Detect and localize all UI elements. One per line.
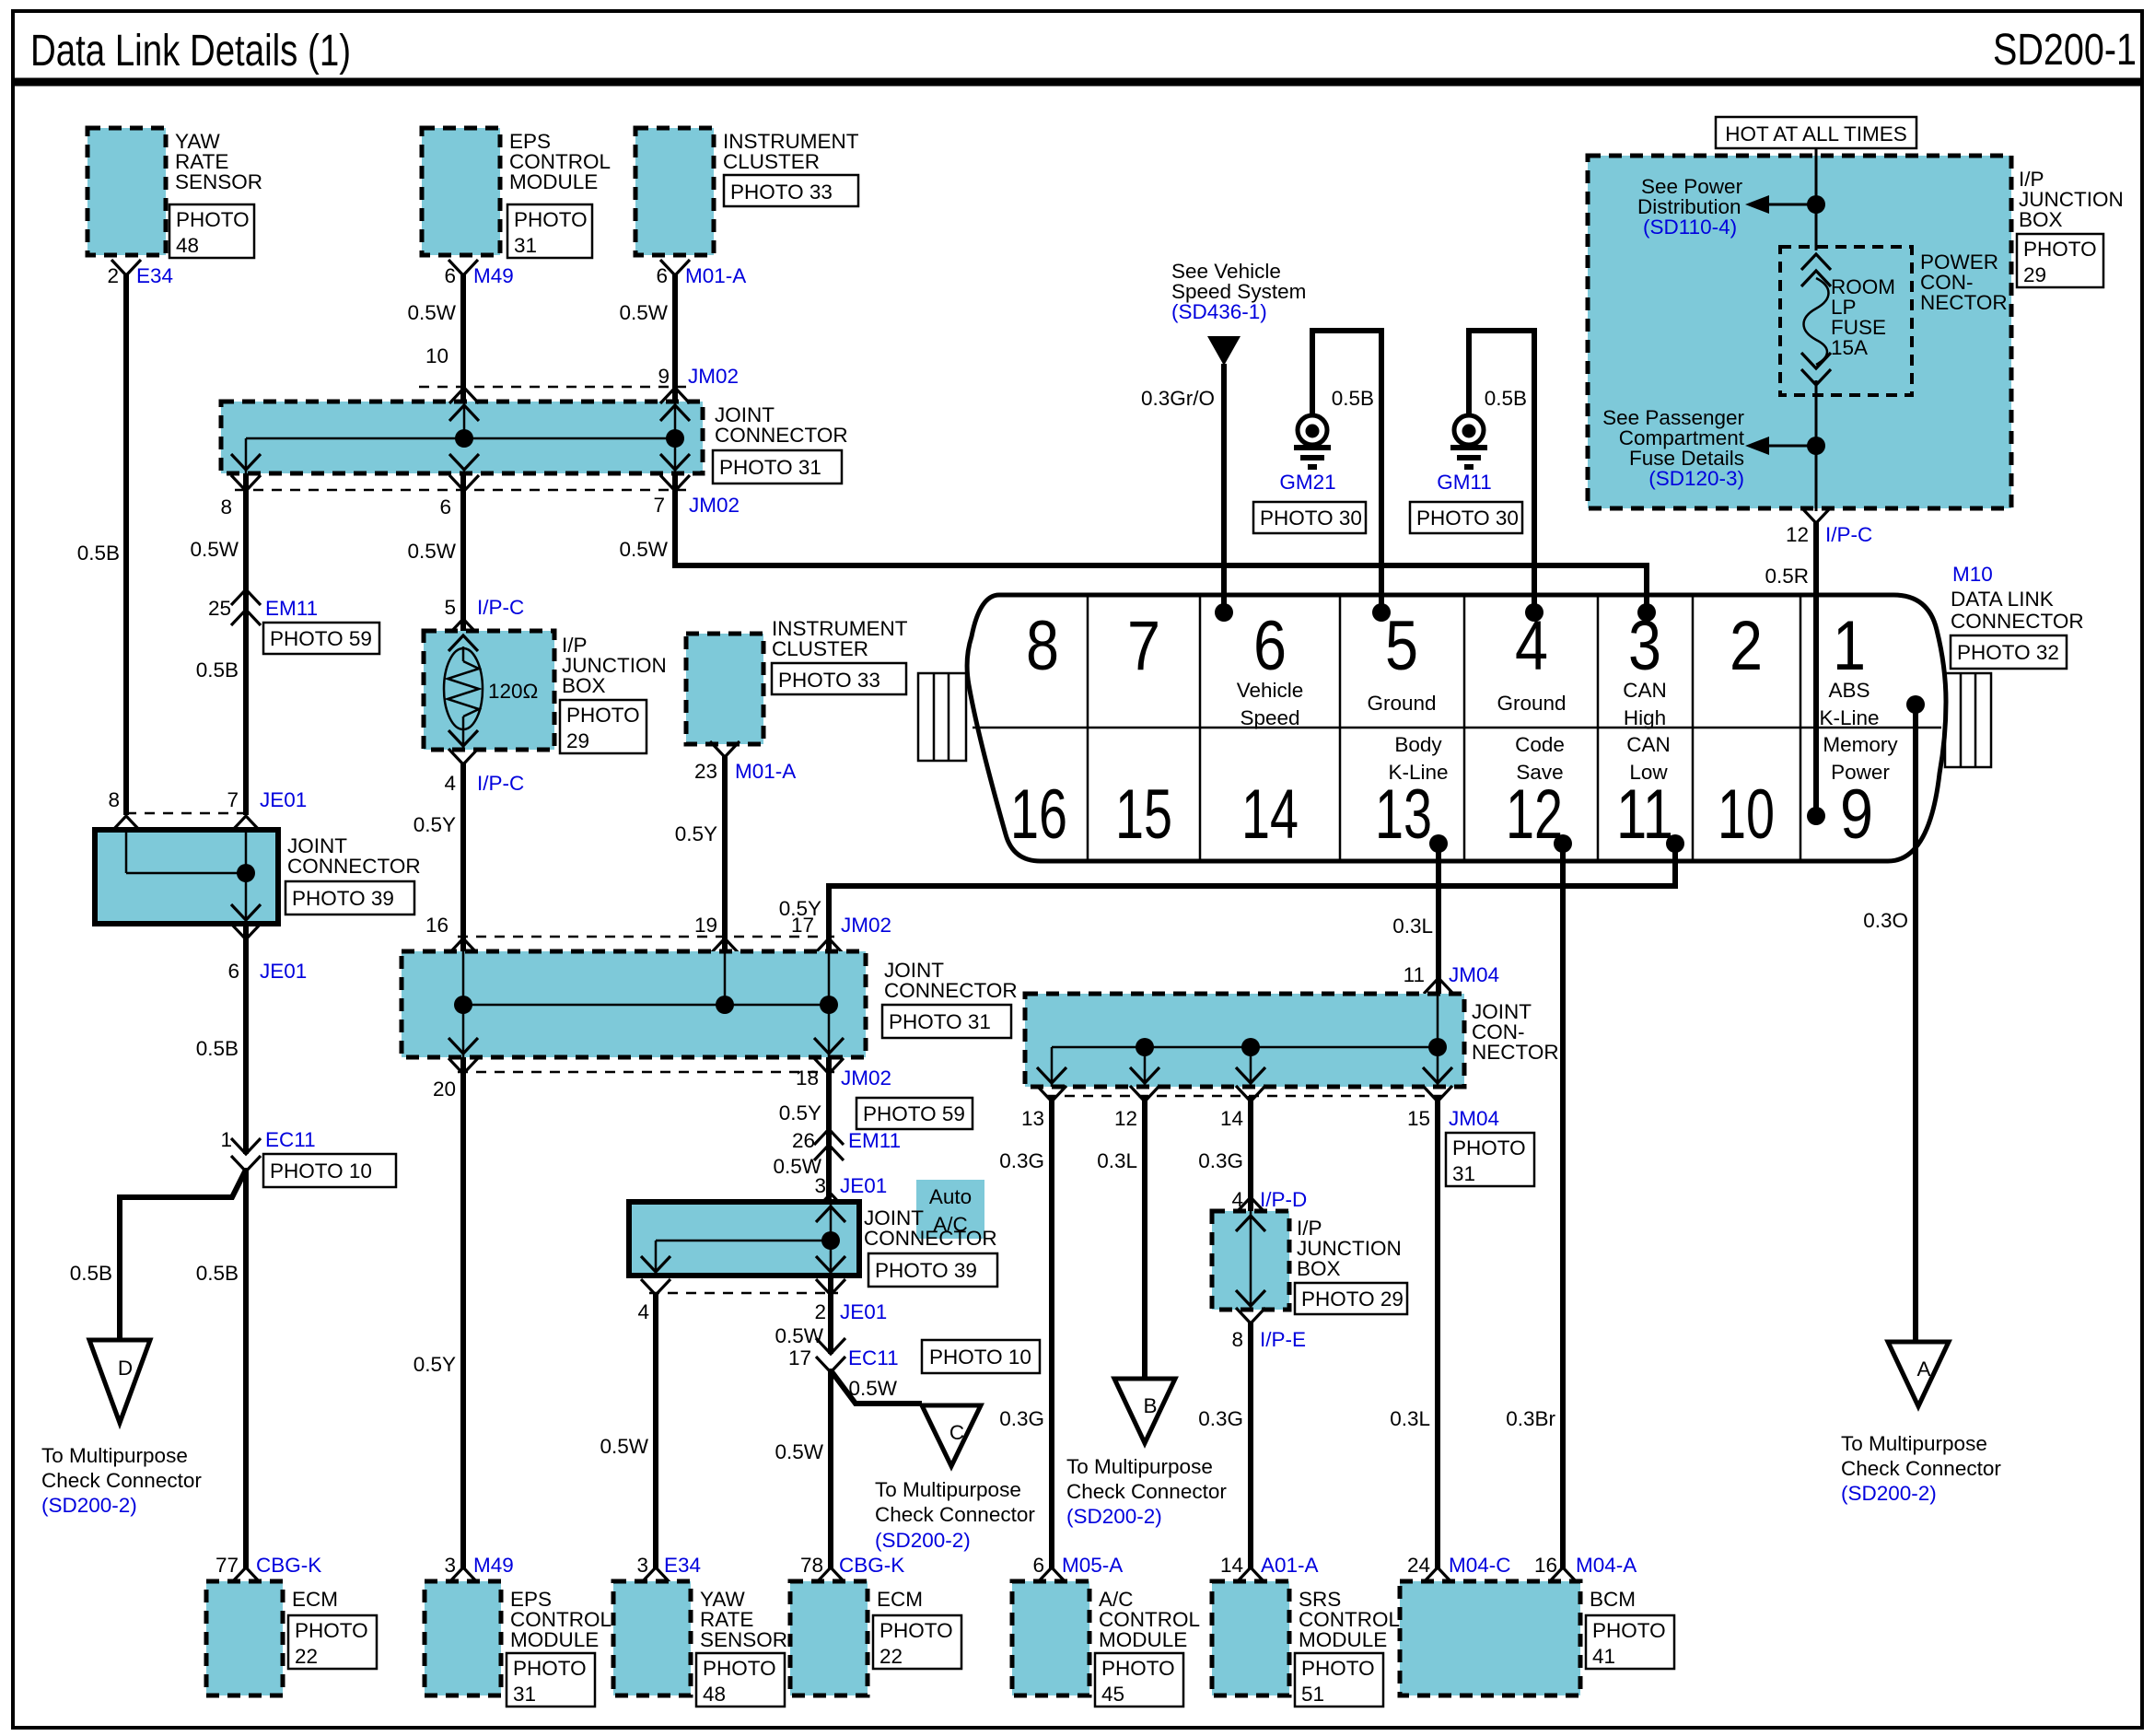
svg-text:(SD110-4): (SD110-4) bbox=[1643, 216, 1737, 239]
svg-text:PHOTO 39: PHOTO 39 bbox=[292, 887, 394, 910]
svg-text:31: 31 bbox=[514, 234, 537, 257]
svg-text:25: 25 bbox=[208, 597, 231, 620]
svg-text:JM02: JM02 bbox=[841, 914, 891, 937]
svg-text:11: 11 bbox=[1404, 963, 1425, 986]
svg-text:MODULE: MODULE bbox=[509, 170, 598, 193]
I/P junction box with 120 ohm resistor (PHOTO 29) bbox=[424, 631, 667, 795]
svg-text:BOX: BOX bbox=[562, 674, 606, 697]
svg-text:CLUSTER: CLUSTER bbox=[772, 637, 868, 660]
svg-text:PHOTO: PHOTO bbox=[2023, 238, 2097, 261]
svg-text:48: 48 bbox=[176, 234, 199, 257]
title separator bar bbox=[13, 78, 2142, 87]
svg-text:ABS: ABS bbox=[1828, 679, 1870, 702]
svg-text:Check Connector: Check Connector bbox=[41, 1469, 202, 1492]
svg-text:PHOTO 33: PHOTO 33 bbox=[778, 669, 880, 692]
svg-text:3: 3 bbox=[444, 1554, 456, 1577]
svg-text:JM02: JM02 bbox=[689, 494, 740, 517]
wire 0.5Y DLC pin 11 to JM02-17 bbox=[779, 844, 1675, 951]
svg-text:EC11: EC11 bbox=[265, 1128, 316, 1151]
svg-text:5: 5 bbox=[1385, 607, 1418, 685]
I/P junction box (middle right, PHOTO 29) bbox=[1212, 1211, 1407, 1351]
fuse ROOM LP FUSE 15A bbox=[1801, 254, 1895, 385]
svg-text:29: 29 bbox=[2023, 263, 2046, 286]
svg-text:M05-A: M05-A bbox=[1062, 1554, 1123, 1577]
svg-text:PHOTO: PHOTO bbox=[1301, 1657, 1375, 1680]
svg-text:41: 41 bbox=[1592, 1645, 1615, 1668]
inline connector EC11 pin 17 (PHOTO 10) bbox=[788, 1338, 1040, 1373]
svg-text:0.5W: 0.5W bbox=[600, 1435, 648, 1458]
svg-text:16: 16 bbox=[1534, 1554, 1557, 1577]
joint connector JE01 (left, PHOTO 39) bbox=[95, 788, 421, 983]
svg-text:4: 4 bbox=[444, 772, 456, 795]
svg-text:PHOTO 10: PHOTO 10 bbox=[270, 1159, 372, 1183]
svg-text:0.5Y: 0.5Y bbox=[675, 822, 717, 845]
svg-text:JM02: JM02 bbox=[841, 1066, 891, 1089]
svg-text:1: 1 bbox=[220, 1128, 232, 1151]
svg-text:(SD200-2): (SD200-2) bbox=[875, 1529, 971, 1552]
svg-text:14: 14 bbox=[1241, 775, 1299, 854]
svg-text:13: 13 bbox=[1021, 1107, 1044, 1130]
off-page triangle C bbox=[875, 1405, 1035, 1552]
svg-text:Power: Power bbox=[1831, 761, 1890, 784]
svg-text:A: A bbox=[1916, 1357, 1930, 1381]
svg-text:26: 26 bbox=[792, 1129, 815, 1152]
svg-text:CONNECTOR: CONNECTOR bbox=[1951, 610, 2084, 633]
DLC pin function labels bottom row bbox=[1388, 733, 1898, 784]
svg-text:0.5Y: 0.5Y bbox=[414, 1353, 456, 1376]
svg-text:0.3L: 0.3L bbox=[1390, 1407, 1430, 1430]
svg-text:11: 11 bbox=[1616, 775, 1673, 854]
wire 0.5W M01-A-6 to JM02-9 bbox=[619, 274, 739, 402]
svg-text:C: C bbox=[949, 1421, 964, 1444]
svg-text:To Multipurpose: To Multipurpose bbox=[875, 1478, 1021, 1501]
see vehicle speed system reference bbox=[1171, 260, 1306, 366]
svg-text:0.3G: 0.3G bbox=[999, 1149, 1044, 1172]
svg-text:15: 15 bbox=[1115, 775, 1172, 854]
svg-text:2: 2 bbox=[107, 264, 119, 287]
svg-text:BCM: BCM bbox=[1590, 1588, 1636, 1611]
svg-text:BOX: BOX bbox=[2019, 208, 2063, 231]
svg-text:MODULE: MODULE bbox=[510, 1628, 599, 1651]
svg-text:77: 77 bbox=[215, 1554, 239, 1577]
inline connector EM11 pin 26 bbox=[773, 1129, 901, 1197]
svg-text:3: 3 bbox=[636, 1554, 648, 1577]
svg-text:JM02: JM02 bbox=[688, 365, 739, 388]
svg-text:I/P-C: I/P-C bbox=[1825, 523, 1872, 546]
svg-text:0.5B: 0.5B bbox=[196, 658, 239, 682]
svg-text:12: 12 bbox=[1114, 1107, 1137, 1130]
wire 0.5W M49-6 to JM02-10 bbox=[407, 274, 463, 402]
wire fuse to I/P-C 12 bbox=[1815, 380, 1818, 511]
wire 0.3Gr/O vehicle speed to DLC pin 6 bbox=[1141, 364, 1224, 612]
svg-text:JE01: JE01 bbox=[840, 1174, 887, 1197]
svg-text:M10: M10 bbox=[1952, 563, 1993, 586]
off-page triangle A bbox=[1841, 1342, 2001, 1505]
svg-text:6: 6 bbox=[227, 960, 239, 983]
svg-text:Speed: Speed bbox=[1240, 706, 1299, 729]
svg-text:15A: 15A bbox=[1831, 336, 1868, 359]
DLC left keying tab bbox=[918, 673, 966, 761]
svg-text:E34: E34 bbox=[136, 264, 173, 287]
svg-text:Ground: Ground bbox=[1497, 692, 1566, 715]
svg-text:18: 18 bbox=[796, 1066, 819, 1089]
svg-text:6: 6 bbox=[1032, 1554, 1044, 1577]
svg-text:EM11: EM11 bbox=[265, 597, 318, 620]
svg-text:14: 14 bbox=[1220, 1554, 1243, 1577]
svg-text:1: 1 bbox=[1833, 607, 1866, 685]
HOT AT ALL TIMES label bbox=[1716, 117, 1916, 148]
svg-text:0.5W: 0.5W bbox=[775, 1440, 823, 1463]
svg-text:To Multipurpose: To Multipurpose bbox=[1841, 1432, 1987, 1455]
svg-text:0.5R: 0.5R bbox=[1765, 565, 1809, 588]
wire 0.3Br DLC pin 12 to BCM M04-A 16 bbox=[1506, 844, 1637, 1583]
svg-text:To Multipurpose: To Multipurpose bbox=[1066, 1455, 1213, 1478]
svg-text:ECM: ECM bbox=[292, 1588, 338, 1611]
svg-text:EC11: EC11 bbox=[848, 1346, 899, 1369]
svg-text:0.5W: 0.5W bbox=[190, 538, 239, 561]
svg-text:8: 8 bbox=[1026, 607, 1059, 685]
ground GM11 (PHOTO 30) bbox=[1410, 415, 1522, 533]
yaw rate sensor E34 (top-left module) bbox=[87, 128, 262, 287]
svg-text:0.5W: 0.5W bbox=[407, 540, 456, 563]
svg-text:17: 17 bbox=[791, 914, 814, 937]
wire 0.5B DLC pin 5 to ground GM21 bbox=[1312, 331, 1381, 612]
svg-text:7: 7 bbox=[227, 788, 239, 811]
svg-text:GM11: GM11 bbox=[1437, 471, 1492, 494]
svg-text:0.5B: 0.5B bbox=[196, 1037, 239, 1060]
svg-text:13: 13 bbox=[1375, 775, 1432, 854]
I/P junction box (top right, PHOTO 29) bbox=[1588, 156, 2124, 508]
see passenger compartment fuse details reference bbox=[1602, 406, 1825, 490]
svg-text:0.5Y: 0.5Y bbox=[414, 813, 456, 836]
DLC pin function labels top row bbox=[1237, 679, 1880, 729]
svg-text:PHOTO: PHOTO bbox=[1452, 1136, 1526, 1159]
svg-text:BOX: BOX bbox=[1297, 1257, 1341, 1280]
svg-text:15: 15 bbox=[1407, 1107, 1430, 1130]
svg-text:14: 14 bbox=[1220, 1107, 1243, 1130]
svg-text:45: 45 bbox=[1101, 1683, 1124, 1706]
svg-text:B: B bbox=[1143, 1394, 1157, 1417]
svg-text:0.5W: 0.5W bbox=[619, 301, 668, 324]
svg-text:0.5B: 0.5B bbox=[70, 1262, 112, 1285]
wire 0.3O DLC pin 1 to triangle A bbox=[1863, 705, 1916, 1344]
svg-text:Low: Low bbox=[1629, 761, 1668, 784]
off-page triangle B bbox=[1066, 1379, 1227, 1528]
svg-text:0.3Gr/O: 0.3Gr/O bbox=[1141, 387, 1215, 410]
svg-text:78: 78 bbox=[800, 1554, 823, 1577]
svg-text:SENSOR: SENSOR bbox=[700, 1628, 787, 1651]
svg-text:High: High bbox=[1624, 706, 1666, 729]
svg-text:Check Connector: Check Connector bbox=[875, 1503, 1035, 1526]
svg-text:0.5W: 0.5W bbox=[848, 1377, 897, 1400]
svg-text:PHOTO: PHOTO bbox=[1592, 1619, 1666, 1642]
svg-text:M49: M49 bbox=[473, 1554, 514, 1577]
wire 0.5W JM02-6 to I/P-C-5 bbox=[407, 473, 524, 635]
svg-text:0.5W: 0.5W bbox=[619, 538, 668, 561]
svg-text:2: 2 bbox=[1730, 607, 1763, 685]
svg-text:0.3G: 0.3G bbox=[1198, 1407, 1243, 1430]
svg-text:CONNECTOR: CONNECTOR bbox=[715, 424, 848, 447]
joint connector JM02 (middle, PHOTO 31) bbox=[402, 937, 1018, 1101]
svg-text:K-Line: K-Line bbox=[1819, 706, 1879, 729]
svg-text:Data Link Details (1): Data Link Details (1) bbox=[30, 27, 351, 76]
wire 0.5W/0.5B JM02-8 to JE01-7 via EM11-25 bbox=[190, 473, 246, 815]
svg-text:PHOTO 31: PHOTO 31 bbox=[719, 456, 821, 479]
svg-text:PHOTO: PHOTO bbox=[1101, 1657, 1175, 1680]
svg-text:CLUSTER: CLUSTER bbox=[723, 150, 820, 173]
svg-text:I/P-C: I/P-C bbox=[477, 596, 524, 619]
svg-text:9: 9 bbox=[658, 365, 670, 388]
svg-text:PHOTO 29: PHOTO 29 bbox=[1301, 1287, 1404, 1311]
joint connector JM04 (PHOTO 31) bbox=[1021, 994, 1559, 1186]
svg-text:EM11: EM11 bbox=[848, 1129, 901, 1152]
wire 0.5Y JM02-20 to EPS M49-3 bbox=[414, 1057, 463, 1568]
svg-text:PHOTO: PHOTO bbox=[703, 1657, 776, 1680]
svg-text:MODULE: MODULE bbox=[1099, 1628, 1187, 1651]
ECM (bottom left module, CBG-K 77) bbox=[206, 1554, 377, 1695]
wire 0.5Y/0.5W JM02-18 to JE01-3 via EM11-26 bbox=[779, 1057, 973, 1202]
svg-text:12: 12 bbox=[1786, 523, 1809, 546]
svg-text:PHOTO: PHOTO bbox=[176, 208, 250, 231]
joint connector JE01 (middle, PHOTO 39) bbox=[629, 1194, 997, 1323]
svg-text:M04-C: M04-C bbox=[1449, 1554, 1511, 1577]
svg-text:120Ω: 120Ω bbox=[488, 680, 538, 703]
svg-text:0.5B: 0.5B bbox=[1485, 387, 1527, 410]
power connector fuse box bbox=[1780, 247, 2008, 395]
svg-text:CAN: CAN bbox=[1626, 733, 1671, 756]
DLC pin numbers top row bbox=[1026, 607, 1866, 685]
svg-text:PHOTO 32: PHOTO 32 bbox=[1957, 641, 2059, 664]
joint connector JM02 (top, PHOTO 31) bbox=[220, 387, 847, 518]
svg-text:6: 6 bbox=[444, 264, 456, 287]
svg-text:48: 48 bbox=[703, 1683, 726, 1706]
svg-text:CONNECTOR: CONNECTOR bbox=[884, 979, 1018, 1002]
svg-text:PHOTO 30: PHOTO 30 bbox=[1416, 507, 1519, 530]
svg-text:SENSOR: SENSOR bbox=[175, 170, 262, 193]
svg-text:10: 10 bbox=[425, 344, 448, 367]
svg-text:10: 10 bbox=[1718, 775, 1775, 854]
svg-text:I/P-D: I/P-D bbox=[1260, 1188, 1307, 1211]
svg-text:5: 5 bbox=[444, 596, 456, 619]
wire 0.5W JE01-2 to EC11-17 bbox=[775, 1276, 831, 1354]
svg-text:(SD120-3): (SD120-3) bbox=[1648, 467, 1744, 490]
ground GM21 (PHOTO 30) bbox=[1253, 415, 1366, 533]
svg-text:I/P-C: I/P-C bbox=[477, 772, 524, 795]
svg-text:6: 6 bbox=[656, 264, 668, 287]
svg-text:0.3O: 0.3O bbox=[1863, 909, 1908, 932]
svg-text:JE01: JE01 bbox=[260, 788, 307, 811]
svg-text:22: 22 bbox=[879, 1645, 903, 1668]
DLC right keying tab bbox=[1945, 673, 1991, 767]
EPS control module (bottom, M49-3) bbox=[425, 1554, 612, 1707]
DLC name labels M10 bbox=[1951, 563, 2084, 669]
svg-text:0.3Br: 0.3Br bbox=[1506, 1407, 1555, 1430]
A/C control module (bottom, M05-A) bbox=[1012, 1581, 1200, 1707]
inline connector EC11 pin 1 (PHOTO 10) bbox=[220, 1128, 396, 1187]
BCM (bottom module, PHOTO 41) bbox=[1400, 1581, 1674, 1695]
wire 0.5Y I/P-C-4 to JM02-16 bbox=[414, 763, 463, 951]
wire 0.5W EC11 branch to triangle C bbox=[831, 1370, 922, 1404]
yaw rate sensor (bottom module, E34-3) bbox=[613, 1554, 787, 1707]
wire 0.5B E34-2 to JE01-8 bbox=[77, 274, 126, 815]
svg-text:PHOTO 39: PHOTO 39 bbox=[875, 1259, 977, 1282]
svg-text:Vehicle: Vehicle bbox=[1237, 679, 1304, 702]
svg-text:8: 8 bbox=[108, 788, 120, 811]
svg-text:19: 19 bbox=[694, 914, 717, 937]
Auto A/C tag bbox=[916, 1180, 984, 1239]
svg-text:HOT AT ALL TIMES: HOT AT ALL TIMES bbox=[1725, 122, 1907, 146]
svg-text:MODULE: MODULE bbox=[1299, 1628, 1387, 1651]
svg-text:(SD200-2): (SD200-2) bbox=[41, 1494, 137, 1517]
svg-text:0.3G: 0.3G bbox=[1198, 1149, 1243, 1172]
svg-text:Save: Save bbox=[1516, 761, 1563, 784]
svg-text:JM04: JM04 bbox=[1449, 963, 1499, 986]
svg-text:2: 2 bbox=[814, 1300, 826, 1323]
svg-text:(SD200-2): (SD200-2) bbox=[1841, 1482, 1937, 1505]
svg-text:9: 9 bbox=[1840, 775, 1873, 854]
DLC pin numbers bottom row bbox=[1010, 775, 1873, 854]
off-page triangle D bbox=[41, 1340, 202, 1517]
svg-text:DATA LINK: DATA LINK bbox=[1951, 588, 2054, 611]
svg-text:6: 6 bbox=[439, 495, 451, 518]
inline connector EM11 pin 25 (PHOTO 59) bbox=[208, 589, 379, 654]
svg-text:0.5B: 0.5B bbox=[196, 1262, 239, 1285]
svg-text:PHOTO 10: PHOTO 10 bbox=[929, 1346, 1031, 1369]
svg-text:Ground: Ground bbox=[1367, 692, 1436, 715]
svg-text:0.3L: 0.3L bbox=[1392, 915, 1433, 938]
wire 0.5Y M01-A-23 to JM02-19 bbox=[675, 755, 725, 951]
svg-text:Memory: Memory bbox=[1823, 733, 1898, 756]
svg-text:M01-A: M01-A bbox=[735, 760, 796, 783]
svg-text:0.5W: 0.5W bbox=[775, 1324, 823, 1347]
wire 0.5B JE01-6 to EC11-1 bbox=[196, 924, 246, 1154]
svg-text:6: 6 bbox=[1253, 607, 1287, 685]
svg-text:16: 16 bbox=[425, 914, 448, 937]
svg-text:M04-A: M04-A bbox=[1576, 1554, 1637, 1577]
svg-text:JM04: JM04 bbox=[1449, 1107, 1499, 1130]
svg-text:7: 7 bbox=[653, 494, 665, 517]
data link connector M10 outline bbox=[967, 595, 1946, 861]
svg-text:Body: Body bbox=[1394, 733, 1442, 756]
svg-text:M01-A: M01-A bbox=[685, 264, 746, 287]
svg-text:PHOTO: PHOTO bbox=[879, 1619, 953, 1642]
svg-text:Auto: Auto bbox=[929, 1185, 972, 1208]
svg-text:SD200-1: SD200-1 bbox=[1993, 26, 2137, 75]
svg-text:0.5Y: 0.5Y bbox=[779, 1101, 821, 1124]
svg-text:I/P-E: I/P-E bbox=[1260, 1328, 1306, 1351]
svg-text:31: 31 bbox=[513, 1683, 536, 1706]
svg-text:(SD200-2): (SD200-2) bbox=[1066, 1505, 1162, 1528]
svg-text:0.3L: 0.3L bbox=[1097, 1149, 1137, 1172]
svg-text:PHOTO: PHOTO bbox=[566, 704, 640, 727]
svg-text:PHOTO: PHOTO bbox=[513, 1657, 587, 1680]
svg-text:CONNECTOR: CONNECTOR bbox=[287, 855, 421, 878]
svg-text:22: 22 bbox=[295, 1645, 318, 1668]
svg-text:PHOTO 33: PHOTO 33 bbox=[730, 181, 833, 204]
wire 0.5B DLC pin 4 to ground GM11 bbox=[1469, 331, 1534, 612]
svg-text:0.5B: 0.5B bbox=[1332, 387, 1374, 410]
svg-text:8: 8 bbox=[1231, 1328, 1243, 1351]
svg-text:Check Connector: Check Connector bbox=[1841, 1457, 2001, 1480]
wire 0.5W JM02-7 to DLC pin 3 CAN high bbox=[619, 473, 1647, 612]
wire hot feed into junction box bbox=[1815, 148, 1818, 250]
svg-text:CONNECTOR: CONNECTOR bbox=[864, 1227, 997, 1250]
wire 0.3G JM04-13 to A/C control module M05-A 6 bbox=[999, 1096, 1123, 1583]
EPS control module M49 (top module) bbox=[422, 128, 611, 287]
see power distribution reference bbox=[1637, 175, 1825, 239]
svg-text:K-Line: K-Line bbox=[1388, 761, 1448, 784]
wire 0.5W JE01-4 to yaw rate sensor E34-3 bbox=[600, 1293, 656, 1568]
svg-text:29: 29 bbox=[566, 729, 589, 752]
svg-text:ECM: ECM bbox=[877, 1588, 923, 1611]
svg-text:M49: M49 bbox=[473, 264, 514, 287]
svg-text:7: 7 bbox=[1127, 607, 1160, 685]
instrument cluster M01-A (top module) bbox=[635, 128, 859, 287]
svg-text:4: 4 bbox=[637, 1300, 649, 1323]
svg-text:CBG-K: CBG-K bbox=[839, 1554, 904, 1577]
svg-text:3: 3 bbox=[814, 1174, 826, 1197]
svg-text:PHOTO 59: PHOTO 59 bbox=[270, 627, 372, 650]
svg-text:PHOTO 59: PHOTO 59 bbox=[863, 1102, 965, 1125]
wire 0.5B EC11 branch to triangle D bbox=[70, 1170, 246, 1342]
svg-text:NECTOR: NECTOR bbox=[1472, 1041, 1559, 1064]
svg-text:PHOTO 31: PHOTO 31 bbox=[889, 1010, 991, 1033]
SRS control module (bottom, A01-A) bbox=[1212, 1581, 1400, 1707]
svg-text:NECTOR: NECTOR bbox=[1920, 291, 2008, 314]
svg-text:GM21: GM21 bbox=[1279, 471, 1335, 494]
svg-text:23: 23 bbox=[694, 760, 717, 783]
wire 0.3L JM04-15 to BCM M04-C 24 bbox=[1390, 1096, 1510, 1583]
svg-text:JE01: JE01 bbox=[260, 960, 307, 983]
wire 0.5W EC11 to ECM-78 bbox=[775, 1369, 831, 1568]
DLC junction dots bbox=[1215, 603, 1925, 853]
svg-text:0.5B: 0.5B bbox=[77, 542, 120, 565]
svg-text:PHOTO: PHOTO bbox=[514, 208, 588, 231]
wire 0.3L JM04-12 to triangle B bbox=[1097, 1096, 1145, 1381]
svg-text:CBG-K: CBG-K bbox=[256, 1554, 321, 1577]
wire 0.5R I/P-C 12 to DLC pin 9 memory power bbox=[1765, 521, 1816, 816]
svg-text:16: 16 bbox=[1010, 775, 1067, 854]
svg-text:Check Connector: Check Connector bbox=[1066, 1480, 1227, 1503]
wire 0.3L DLC pin 13 to JM04-11 bbox=[1392, 844, 1499, 1011]
svg-text:PHOTO 30: PHOTO 30 bbox=[1260, 507, 1362, 530]
svg-text:(SD436-1): (SD436-1) bbox=[1171, 300, 1267, 323]
svg-text:17: 17 bbox=[788, 1346, 811, 1369]
svg-text:0.3G: 0.3G bbox=[999, 1407, 1044, 1430]
svg-text:8: 8 bbox=[220, 495, 232, 518]
svg-text:D: D bbox=[118, 1357, 133, 1380]
svg-text:20: 20 bbox=[433, 1078, 456, 1101]
svg-text:51: 51 bbox=[1301, 1683, 1324, 1706]
connector I/P-C pin 12 exit bbox=[1786, 507, 1872, 546]
svg-text:A01-A: A01-A bbox=[1261, 1554, 1319, 1577]
svg-text:CAN: CAN bbox=[1623, 679, 1667, 702]
svg-text:JE01: JE01 bbox=[840, 1300, 887, 1323]
svg-text:To Multipurpose: To Multipurpose bbox=[41, 1444, 188, 1467]
instrument cluster M01-A (middle module) bbox=[686, 617, 908, 783]
wire 0.3G JM04-14 to I/P-D 4 bbox=[1198, 1096, 1307, 1213]
svg-text:0.5W: 0.5W bbox=[407, 301, 456, 324]
svg-text:Code: Code bbox=[1515, 733, 1565, 756]
ECM (bottom module, CBG-K 78) bbox=[790, 1554, 961, 1695]
svg-text:PHOTO: PHOTO bbox=[295, 1619, 368, 1642]
svg-text:31: 31 bbox=[1452, 1162, 1475, 1185]
svg-text:24: 24 bbox=[1407, 1554, 1430, 1577]
wire 0.5B EC11 to ECM-77 bbox=[196, 1168, 246, 1568]
svg-text:E34: E34 bbox=[664, 1554, 701, 1577]
wire 0.3G I/P-E 8 to SRS control module A01-A 14 bbox=[1198, 1322, 1318, 1583]
